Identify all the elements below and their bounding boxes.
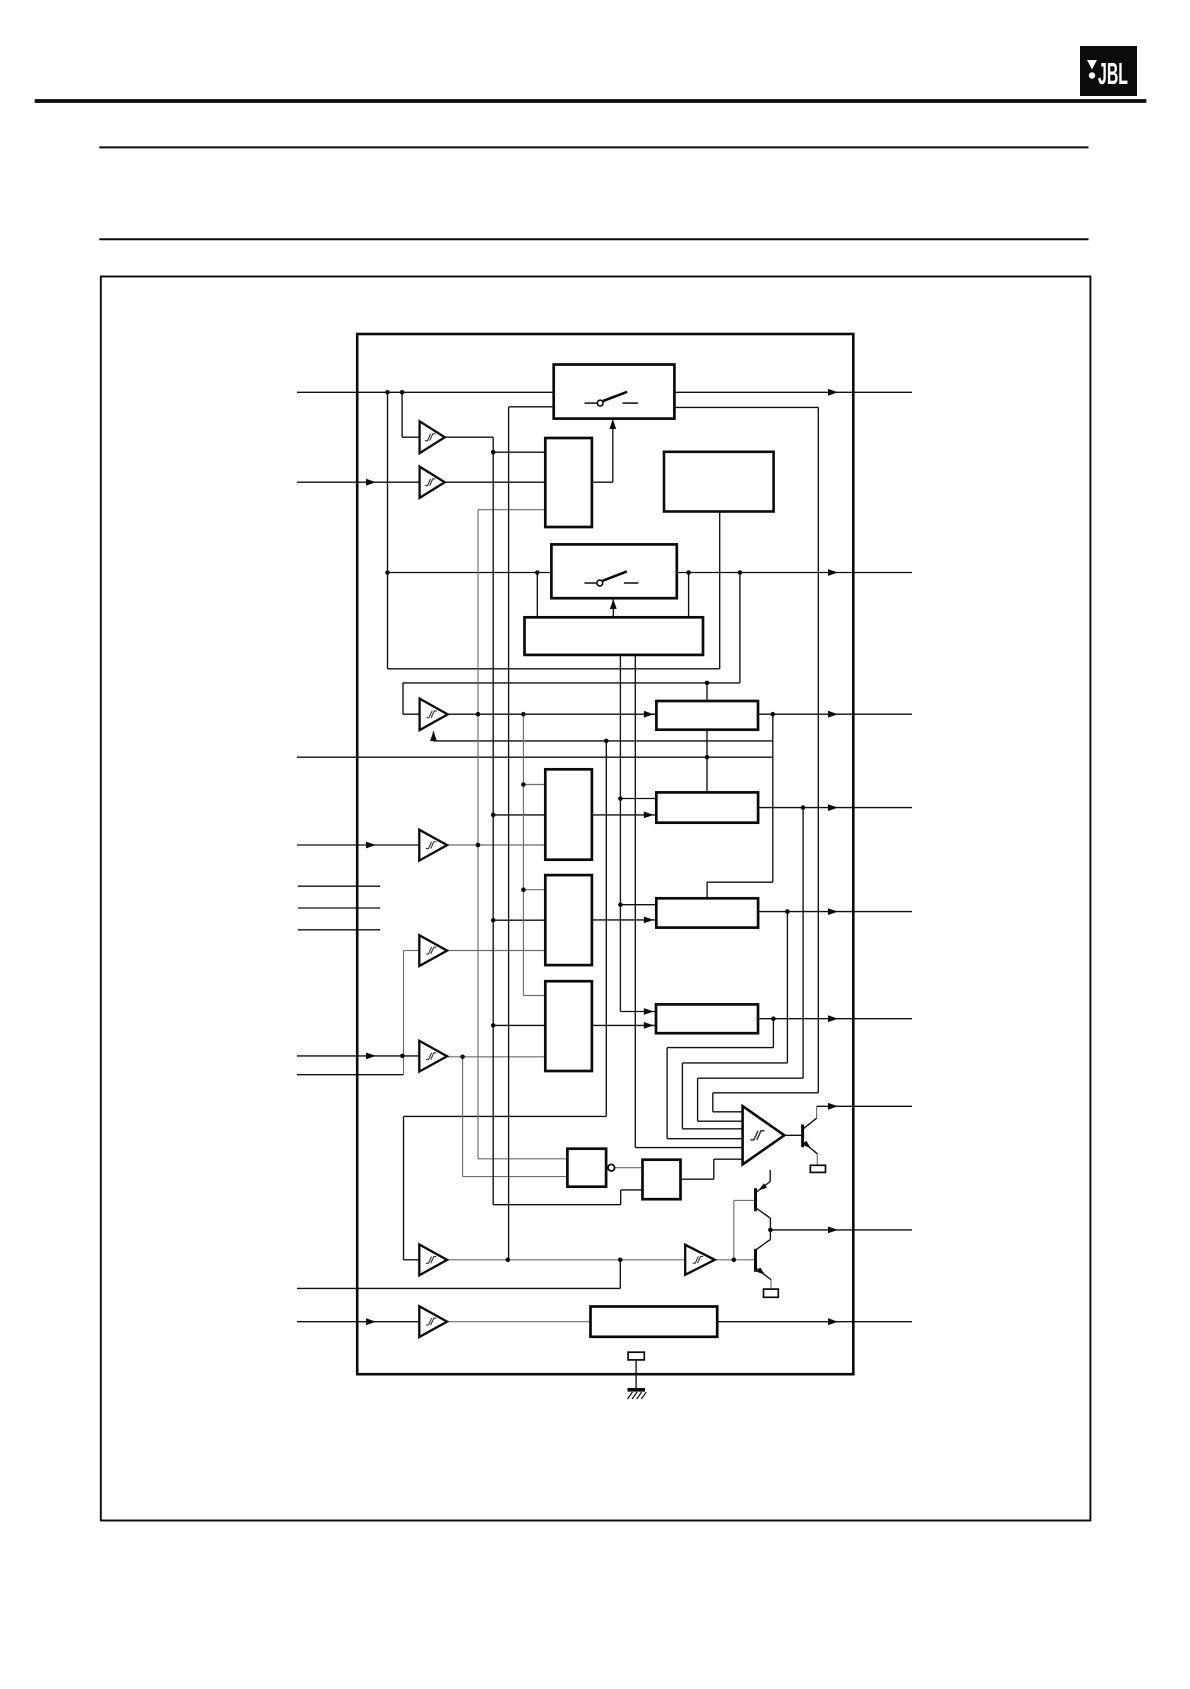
svg-text:JBL: JBL (1098, 56, 1128, 91)
